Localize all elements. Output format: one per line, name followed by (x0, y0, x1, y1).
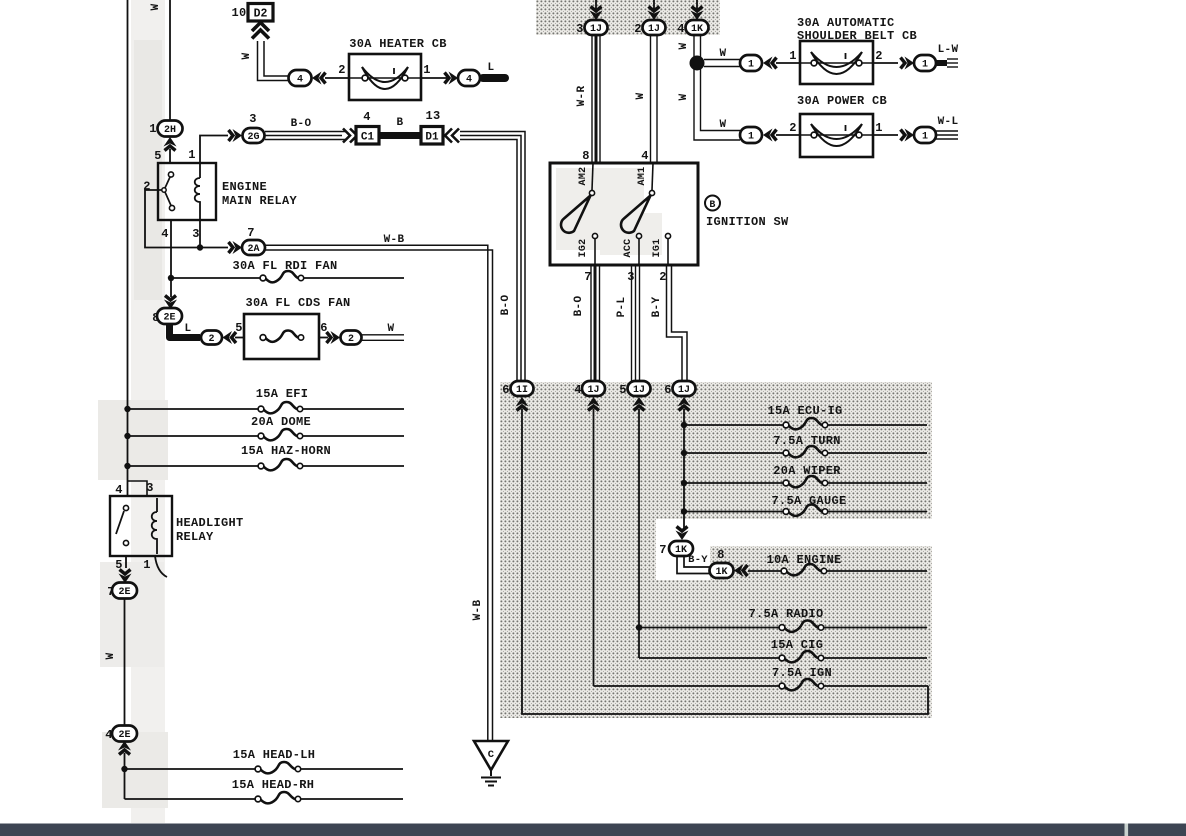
arrow into 1J-2 (648, 7, 661, 21)
fuse 20A DOME (258, 429, 303, 440)
wire W to AM1 (650, 35, 652, 163)
connector 4 (heater CB right) (458, 70, 480, 86)
svg-text:W: W (105, 652, 117, 659)
engine main relay contact mid (162, 188, 166, 192)
svg-text:10: 10 (231, 6, 246, 20)
wire above 1J-3 (595, 0, 597, 9)
scan noise patch below headlight relay (100, 562, 164, 667)
arrow out of heater CB (445, 72, 459, 85)
wire above 1K-4 (696, 0, 698, 9)
wire power CB pin2 (776, 134, 799, 136)
connector 1J (pin 5 lower) (628, 381, 651, 396)
wire thick B bar (379, 132, 421, 139)
power CB box (800, 114, 873, 157)
arrow into 1J-3 (590, 7, 603, 21)
svg-text:W: W (720, 48, 727, 60)
wire 1K-4 down pair (693, 35, 695, 58)
svg-text:5: 5 (235, 321, 243, 335)
arrow up into 1I (516, 397, 529, 411)
wire relay pin 5 to arrow (169, 149, 171, 163)
wire relay pin 3 down (199, 220, 201, 248)
node WIPER tap (681, 480, 687, 486)
svg-text:2: 2 (789, 121, 797, 135)
svg-text:4: 4 (641, 149, 649, 163)
connector 1 (power CB left) (740, 127, 762, 143)
ground hatch (481, 777, 501, 779)
svg-text:W-B: W-B (384, 234, 405, 246)
wire 2E to 2E lower (124, 598, 126, 726)
scan noise patch left margin upper (134, 40, 162, 300)
svg-text:W: W (388, 323, 395, 335)
svg-text:1J: 1J (590, 24, 602, 35)
arrow into 2A (229, 241, 243, 254)
connector 1I (511, 381, 534, 396)
wire stub to headlight relay pin 3 (128, 481, 148, 496)
wire power CB pin1 out (873, 134, 898, 136)
wire 7.5A IGN row (594, 685, 929, 687)
wire B-O to fuse box (outer) (460, 132, 525, 383)
svg-text:4: 4 (363, 110, 371, 124)
ignition IG1 contact (665, 233, 670, 238)
svg-text:L: L (185, 323, 192, 335)
wire IG2 inside (594, 238, 596, 265)
engine main relay box (158, 163, 216, 220)
svg-text:20A DOME: 20A DOME (251, 415, 311, 429)
wire CDS pin6 out (319, 337, 328, 339)
arrow into connector 4 left (312, 72, 326, 85)
chevrons B-O right (343, 129, 357, 143)
svg-text:B: B (397, 117, 404, 129)
fuse 7.5A GAUGE (783, 504, 828, 515)
svg-text:1: 1 (748, 132, 754, 143)
svg-text:20A WIPER: 20A WIPER (773, 464, 841, 478)
wire heater CB pin2 to arrow (325, 77, 349, 79)
wire D2 down-left pair (258, 41, 291, 81)
svg-text:2E: 2E (118, 587, 130, 598)
svg-text:7.5A IGN: 7.5A IGN (772, 666, 832, 680)
wire 10A ENGINE row (748, 570, 927, 572)
svg-text:1K: 1K (675, 545, 687, 556)
headlight relay box (110, 496, 172, 556)
svg-text:4: 4 (161, 227, 169, 241)
wire headlight relay pin 1 tail (155, 556, 167, 577)
svg-text:ACC: ACC (623, 239, 634, 258)
node B circle (705, 196, 720, 211)
wire 7.5A TURN row (684, 452, 927, 454)
node shoulder belt feed (690, 56, 705, 71)
svg-text:13: 13 (425, 109, 440, 123)
wire node down to power CB pair (694, 68, 740, 140)
svg-text:15A HEAD-RH: 15A HEAD-RH (232, 778, 315, 792)
headlight relay contact bottom (123, 540, 128, 545)
wire 7.5A RADIO row (639, 627, 927, 629)
ignition AM2 wiper (561, 196, 591, 233)
white cutout band in fuse box (656, 519, 932, 546)
wire relay pin1 up to 2G (200, 136, 228, 164)
engine main relay contact bottom (169, 205, 174, 210)
connector C1 (356, 127, 379, 145)
node RADIO tap (636, 624, 642, 630)
svg-text:2E: 2E (118, 730, 130, 741)
svg-text:W: W (678, 42, 690, 49)
svg-text:W: W (241, 52, 253, 59)
svg-text:L-W: L-W (938, 44, 959, 56)
wire relay pin 2 loop (145, 190, 228, 248)
arrow into connector 2E-7 (119, 570, 132, 584)
wire AM2 inside (592, 163, 593, 190)
connector 2 (left of CDS fan) (201, 331, 222, 346)
fuse 10A ENGINE (781, 564, 827, 575)
svg-text:2H: 2H (164, 125, 176, 136)
connector 2A (242, 240, 265, 255)
wire B-O to fuse box (mid) (460, 136, 521, 383)
svg-text:1I: 1I (516, 385, 528, 396)
svg-text:L: L (488, 62, 495, 74)
svg-text:D2: D2 (254, 7, 268, 20)
svg-text:7.5A RADIO: 7.5A RADIO (748, 607, 823, 621)
wire IG2 bundle down (590, 265, 592, 381)
wire relay pin 4 down (170, 220, 172, 297)
engine main relay switch arm (165, 177, 170, 188)
wire 15A HEAD-LH row (125, 768, 404, 770)
svg-text:7.5A TURN: 7.5A TURN (773, 434, 841, 448)
svg-text:D1: D1 (425, 131, 439, 143)
arrow into 1K-8 (734, 564, 748, 577)
bottom toolbar divider (1125, 824, 1129, 836)
wire 1J-5 down (638, 409, 640, 658)
wire heater CB pin1 out (421, 77, 448, 79)
node RDI fan tap (168, 275, 174, 281)
svg-text:C: C (488, 749, 495, 761)
connector 1K (pin 8) (710, 563, 734, 578)
wire ACC bundle down (631, 265, 633, 381)
arrow up into connector 2E-4 (118, 741, 131, 755)
wire 1J-4 down (593, 409, 595, 686)
headlight relay switch arm (116, 511, 124, 534)
svg-text:ENGINE: ENGINE (222, 180, 267, 194)
svg-text:3: 3 (146, 481, 154, 495)
breaker element shoulder belt CB (800, 52, 873, 74)
fuse 7.5A TURN (783, 446, 828, 457)
connector 2 (right of CDS fan) (341, 331, 362, 346)
chevrons after D1 (445, 129, 459, 143)
svg-text:1: 1 (922, 132, 928, 143)
bottom toolbar (0, 824, 1186, 836)
node ECU-IG tap (681, 422, 687, 428)
svg-text:W: W (720, 119, 727, 131)
arrow into 2G (229, 129, 243, 142)
wire node to connector 1 shoulder (704, 59, 740, 61)
arrow into connector 2E-8 (164, 296, 177, 310)
arrow into connector 2 left (223, 331, 237, 344)
scan noise inside ignition switch (556, 168, 644, 250)
arrow out of CDS to connector 2 (327, 331, 341, 344)
connector 4 (heater CB left) (289, 70, 312, 86)
svg-text:30A AUTOMATIC: 30A AUTOMATIC (797, 16, 895, 30)
svg-text:1: 1 (922, 60, 928, 71)
arrow into 1K-4 (691, 7, 704, 21)
wire thick L from 2E-8 (170, 324, 201, 338)
svg-text:1: 1 (875, 121, 883, 135)
connector 2H (158, 121, 183, 137)
svg-text:8: 8 (582, 149, 590, 163)
svg-text:W: W (150, 3, 162, 10)
svg-text:2E: 2E (163, 313, 175, 324)
connector 2E (pin 7) (112, 583, 137, 599)
svg-text:15A ECU-IG: 15A ECU-IG (767, 404, 842, 418)
30A FL CDS FAN CB box (244, 314, 319, 359)
svg-text:IGNITION SW: IGNITION SW (706, 215, 789, 229)
wire 7.5A GAUGE row (684, 511, 927, 513)
wire 15A HEAD-RH row (125, 798, 404, 800)
svg-text:4: 4 (466, 75, 472, 86)
wire CDS pin5 to arrow (235, 337, 244, 339)
wire IG1 inside (667, 238, 669, 265)
svg-text:B-O: B-O (291, 118, 312, 130)
wire AM1 inside (652, 163, 653, 190)
halftone block fuse box (500, 382, 932, 718)
wire B-O triple run (265, 131, 346, 133)
connector 2G (243, 128, 265, 143)
fuse 15A HAZ-HORN (258, 459, 303, 470)
svg-text:1: 1 (143, 558, 151, 572)
svg-text:8: 8 (717, 548, 725, 562)
svg-text:2: 2 (659, 270, 667, 284)
wire 1J-6 down (683, 409, 685, 528)
svg-text:6: 6 (664, 383, 672, 397)
arrow out power CB (901, 129, 915, 142)
wire B-O to fuse box (inner) (460, 140, 517, 383)
svg-text:AM2: AM2 (578, 167, 589, 186)
ignition IG2 contact (592, 233, 597, 238)
node HAZ-HORN tap (124, 463, 130, 469)
connector 1J (pin 2) (643, 20, 666, 35)
connector 1 (power CB right) (914, 127, 936, 143)
arrow out shoulder CB (901, 57, 915, 70)
svg-text:30A FL CDS FAN: 30A FL CDS FAN (245, 296, 350, 310)
wire 15A ECU-IG row (684, 424, 927, 426)
wire W-B from 2A to ground (lower) (265, 250, 493, 741)
svg-text:3: 3 (576, 22, 584, 36)
svg-text:HEADLIGHT: HEADLIGHT (176, 516, 244, 530)
svg-text:1: 1 (423, 63, 431, 77)
connector 1J (pin 3) (585, 20, 608, 35)
chevrons below D2 (252, 23, 269, 39)
connector 1 (shoulder belt CB left) (740, 55, 762, 71)
svg-text:3: 3 (192, 227, 200, 241)
svg-text:15A CIG: 15A CIG (771, 638, 824, 652)
svg-text:2: 2 (348, 334, 354, 345)
svg-text:1K: 1K (691, 24, 703, 35)
arrow up into 1J-6 (678, 397, 691, 411)
svg-text:7: 7 (659, 543, 667, 557)
fuse 7.5A IGN (779, 679, 824, 690)
breaker element power CB (800, 124, 873, 146)
svg-text:C1: C1 (361, 131, 375, 143)
svg-text:2G: 2G (247, 132, 259, 143)
wire 15A EFI row (128, 408, 405, 410)
node EFI tap (124, 406, 130, 412)
wire 1I down and around (522, 409, 928, 714)
svg-text:1J: 1J (648, 24, 660, 35)
wire feed to 2H (169, 0, 171, 121)
svg-text:7: 7 (247, 226, 255, 240)
svg-text:15A HEAD-LH: 15A HEAD-LH (233, 748, 316, 762)
wire W from CDS right connector (362, 334, 405, 336)
fuse 20A WIPER (783, 476, 828, 487)
wire 15A HAZ-HORN row (128, 465, 405, 467)
fuse 15A HEAD-LH (255, 762, 301, 773)
ignition AM1 wiper (621, 196, 651, 233)
svg-text:4: 4 (574, 383, 582, 397)
svg-text:B-O: B-O (573, 296, 585, 317)
svg-text:2: 2 (634, 22, 642, 36)
node DOME tap (124, 433, 130, 439)
svg-text:2: 2 (875, 49, 883, 63)
shoulder belt CB box (800, 41, 873, 84)
breaker element heater CB (349, 67, 421, 89)
fuse 15A EFI (258, 402, 303, 413)
svg-text:B-Y: B-Y (688, 554, 708, 566)
svg-text:B-Y: B-Y (651, 297, 663, 318)
wire 30A FL RDI FAN row (171, 277, 404, 279)
fuse 15A ECU-IG (783, 418, 828, 429)
svg-text:AM1: AM1 (637, 167, 648, 186)
wire shoulder CB pin1 (776, 62, 799, 64)
heater CB box (349, 54, 421, 100)
svg-text:RELAY: RELAY (176, 530, 214, 544)
wire below 2E-4 (124, 753, 126, 799)
svg-text:2: 2 (338, 63, 346, 77)
connector 2E (pin 8) (157, 308, 182, 324)
svg-text:5: 5 (154, 149, 162, 163)
halftone band top (fuse box feed) (536, 0, 720, 35)
wire L-W stub (936, 60, 947, 66)
ground C triangle (474, 741, 508, 770)
arrow down into 1K-7 (676, 527, 689, 541)
fuse 15A HEAD-RH (255, 792, 301, 803)
svg-text:1J: 1J (587, 385, 599, 396)
fuse element CDS fan (260, 330, 304, 341)
wire 1K7 to 1K8 (677, 556, 711, 574)
node GAUGE tap (681, 508, 687, 514)
arrow up into 1J-4 (587, 397, 600, 411)
svg-text:3: 3 (249, 112, 257, 126)
ignition AM1 pivot (649, 190, 654, 195)
svg-text:W-B: W-B (472, 600, 484, 621)
connector 1K (pin 7) (669, 541, 693, 556)
wire 20A WIPER row (684, 482, 927, 484)
svg-text:1: 1 (748, 60, 754, 71)
svg-text:IG1: IG1 (652, 239, 663, 258)
arrow into connector 1 shoulder (763, 57, 777, 70)
arrow up into 1J-5 (633, 397, 646, 411)
headlight relay coil (152, 498, 157, 554)
wire shoulder CB pin2 out (873, 62, 898, 64)
engine main relay contact top (168, 172, 173, 177)
svg-text:W: W (635, 92, 647, 99)
ignition AM2 pivot (589, 190, 594, 195)
scan noise strip left margin (131, 0, 165, 823)
wire thick L stub (483, 74, 505, 82)
svg-text:6: 6 (502, 383, 510, 397)
svg-text:15A EFI: 15A EFI (256, 387, 309, 401)
svg-text:1: 1 (789, 49, 797, 63)
svg-text:4: 4 (677, 22, 685, 36)
connector 1J (pin 6 lower) (673, 381, 696, 396)
svg-text:1J: 1J (633, 385, 645, 396)
svg-text:IG2: IG2 (578, 239, 589, 258)
svg-text:1: 1 (188, 148, 196, 162)
ignition ACC contact (636, 233, 641, 238)
fuse 15A CIG (779, 651, 824, 662)
connector D1 (421, 127, 443, 145)
svg-text:B: B (709, 200, 715, 211)
wire main left feed vertical (127, 0, 129, 497)
wire headlight relay pin 5 down (125, 556, 127, 568)
svg-text:2: 2 (208, 334, 214, 345)
connector 1J (pin 4 lower) (582, 381, 605, 396)
fuse 30A FL RDI FAN (260, 271, 304, 282)
scan noise patch near head fuses (102, 732, 168, 808)
connector 2E (pin 4) (112, 726, 137, 742)
svg-text:30A POWER CB: 30A POWER CB (797, 94, 887, 108)
svg-text:P-L: P-L (616, 297, 628, 318)
connector 1 (shoulder belt CB right) (914, 55, 936, 71)
svg-text:10A ENGINE: 10A ENGINE (766, 553, 841, 567)
svg-text:MAIN RELAY: MAIN RELAY (222, 194, 298, 208)
wire W-R bundle to AM2 (591, 35, 593, 163)
wire ACC inside (638, 238, 640, 265)
svg-text:1K: 1K (715, 567, 727, 578)
fuse 7.5A RADIO (779, 620, 824, 631)
wire above 1J-2 (653, 0, 655, 9)
svg-text:5: 5 (619, 383, 627, 397)
white cutout around connector 1K (656, 519, 710, 580)
engine main relay coil (195, 163, 200, 220)
svg-text:1J: 1J (678, 385, 690, 396)
svg-text:W: W (678, 93, 690, 100)
scan noise patch near fuses left (98, 400, 168, 480)
headlight relay contact top (123, 505, 128, 510)
wire IG1 jog down (667, 265, 683, 381)
svg-text:30A HEATER CB: 30A HEATER CB (349, 37, 447, 51)
svg-text:15A HAZ-HORN: 15A HAZ-HORN (241, 444, 331, 458)
node TURN tap (681, 450, 687, 456)
svg-text:1: 1 (149, 122, 157, 136)
arrow into connector 1 power (763, 129, 777, 142)
arrow up into 2H (164, 137, 177, 151)
wire W-L stub (936, 130, 958, 132)
svg-text:2A: 2A (247, 244, 259, 255)
ground stem (490, 770, 492, 776)
svg-text:B-O: B-O (500, 295, 512, 316)
node head fuses tap (121, 766, 127, 772)
svg-text:4: 4 (297, 75, 303, 86)
wire W-B from 2A to ground (upper) (265, 245, 488, 741)
node pin3 junction (197, 244, 203, 250)
connector D2 (248, 4, 273, 22)
ignition switch box (550, 163, 698, 265)
connector 1K (pin 4) (686, 20, 709, 35)
svg-text:W-L: W-L (938, 116, 959, 128)
wire 15A CIG row (639, 657, 927, 659)
wire 20A DOME row (128, 435, 405, 437)
svg-text:W-R: W-R (576, 86, 588, 107)
